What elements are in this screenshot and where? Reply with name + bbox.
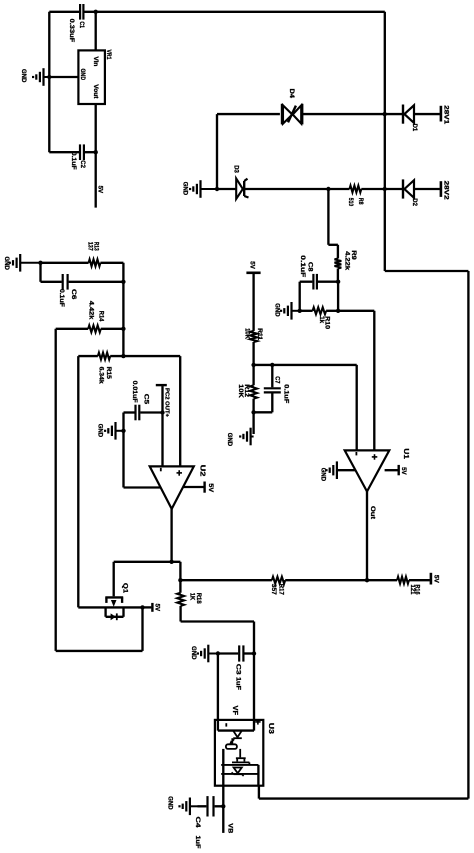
U2 minus sign: [160, 468, 162, 471]
wire R15 row: [78, 355, 98, 357]
svg-text:GND: GND: [226, 433, 232, 447]
ground U1: [336, 469, 338, 471]
svg-text:R17: R17: [277, 584, 284, 596]
capacitor C2: [79, 144, 81, 160]
resistor R13: [89, 259, 101, 266]
ground D3: [201, 188, 218, 190]
wire U2 out: [170, 509, 172, 562]
wire U2 5V pin: [183, 486, 204, 488]
svg-text:D4: D4: [288, 89, 295, 99]
terminal 5V U2: [203, 482, 205, 493]
op-amp U1: [345, 450, 390, 491]
wire C8-gnd: [299, 282, 301, 311]
node C6 join: [121, 280, 125, 284]
svg-text:Out: Out: [369, 506, 376, 519]
U3 plus sign: [257, 719, 259, 724]
wire U1 out: [366, 492, 368, 581]
svg-text:1uF: 1uF: [235, 677, 242, 690]
ground C8: [292, 310, 300, 312]
svg-text:GND: GND: [319, 468, 325, 482]
regulator VR1: [78, 50, 105, 104]
diode D2: [385, 188, 403, 190]
wire U1 gnd pin: [337, 469, 356, 471]
svg-text:VF: VF: [231, 706, 238, 716]
node gnd junction: [47, 75, 51, 79]
node C4 join: [221, 804, 225, 808]
wire C6 drop: [39, 263, 41, 282]
terminal 28V1: [440, 106, 443, 122]
svg-text:C7: C7: [274, 376, 281, 384]
wire R14 row: [56, 328, 88, 330]
svg-text:5V: 5V: [433, 575, 440, 584]
svg-text:GND: GND: [3, 257, 9, 271]
node bus D4: [383, 112, 387, 116]
wire U3 minus pin: [217, 654, 219, 731]
svg-text:0.1uF: 0.1uF: [299, 255, 306, 277]
node bus D2: [383, 187, 387, 191]
terminal 28V2: [440, 181, 443, 197]
wire C5-gnd: [122, 413, 124, 488]
svg-text:R11: R11: [256, 328, 263, 341]
wire U2out corner: [179, 562, 181, 593]
svg-text:D3: D3: [232, 165, 239, 173]
svg-text:1uF: 1uF: [194, 836, 201, 849]
U3 emitter wire: [221, 764, 258, 766]
resistor R12: [250, 385, 257, 399]
U3 zener: [234, 768, 242, 774]
capacitor C5: [124, 411, 135, 413]
wire gate row: [114, 561, 181, 563]
resistor R11: [250, 331, 257, 342]
wire source loop: [141, 607, 143, 651]
wire D4 row: [217, 113, 280, 115]
node R15 join: [121, 354, 125, 358]
wire left bus: [122, 263, 124, 356]
node C3 right: [252, 651, 256, 655]
wire R13 row: [41, 262, 89, 264]
terminal PC2 OUT+: [161, 386, 163, 412]
diode D1: [385, 113, 403, 115]
U2 plus sign: [178, 470, 180, 476]
terminal 5V R16: [430, 573, 433, 585]
svg-text:Vin: Vin: [92, 56, 98, 66]
node R12/C7: [251, 410, 255, 414]
capacitor C8: [300, 281, 313, 283]
ground R13: [20, 262, 40, 264]
ground C3: [208, 653, 218, 655]
resistor R8: [350, 186, 362, 193]
wire bottom bus: [259, 797, 469, 799]
resistor R17: [272, 577, 285, 584]
wire U1- row: [254, 364, 357, 366]
ground C4: [190, 805, 198, 807]
wire U1 5V pin: [385, 469, 398, 471]
wire top rail (Vin): [49, 11, 79, 13]
resistor R15: [98, 353, 110, 360]
wire right bus: [384, 12, 386, 271]
wire U3 plus pin: [253, 654, 255, 731]
svg-text:Q1: Q1: [122, 583, 129, 594]
svg-text:GND: GND: [190, 646, 196, 660]
svg-text:VR1: VR1: [105, 50, 112, 60]
wire D4-D3 link: [216, 114, 218, 189]
U3 left pin out: [222, 786, 224, 807]
node U1 out join: [365, 578, 369, 582]
node C3 left: [216, 651, 220, 655]
svg-text:D2: D2: [411, 198, 418, 206]
wire VB stub: [222, 806, 224, 833]
svg-text:R8: R8: [357, 198, 364, 205]
svg-text:10K: 10K: [243, 328, 250, 340]
svg-text:Vout: Vout: [92, 84, 98, 98]
wire U2 minus: [161, 413, 163, 467]
svg-text:0.33uF: 0.33uF: [68, 19, 75, 43]
wire U2 Vminus: [124, 486, 162, 488]
wire Vin pin: [95, 12, 97, 51]
op-amp U2: [150, 466, 194, 509]
wire Vout pin: [95, 104, 97, 208]
terminal 5V U1: [398, 465, 400, 475]
wire R9-C8: [337, 269, 339, 282]
tvs diode D4: [281, 104, 283, 125]
wire R12: [252, 365, 254, 385]
node C7 top: [270, 363, 274, 367]
node R13 gnd: [38, 261, 42, 265]
svg-text:C2: C2: [79, 160, 86, 168]
wire R16 row: [367, 579, 397, 581]
node R18 top: [178, 578, 182, 582]
svg-text:28V2: 28V2: [443, 181, 450, 201]
U3 lower wire: [221, 773, 258, 775]
svg-text:5V: 5V: [207, 483, 214, 493]
resistor R14: [88, 325, 101, 332]
svg-text:PC2 OUT+: PC2 OUT+: [163, 388, 169, 418]
wire Q1 5V: [143, 606, 152, 608]
svg-text:4.22k: 4.22k: [343, 251, 350, 271]
U1 plus sign: [374, 454, 376, 460]
capacitor C1: [79, 4, 81, 20]
wire C2 row: [49, 151, 79, 153]
node R11/R12: [251, 363, 255, 367]
capacitor C7: [271, 365, 273, 387]
wire D3-R8 row: [244, 188, 349, 190]
svg-text:6.34k: 6.34k: [97, 367, 104, 385]
node C5 gnd: [121, 429, 125, 433]
svg-text:5V: 5V: [400, 467, 407, 475]
svg-text:121: 121: [409, 585, 416, 596]
wire to U1+: [338, 310, 374, 312]
svg-text:28V1: 28V1: [443, 105, 450, 125]
wire R18 out: [179, 606, 181, 622]
U3 wire left: [222, 749, 224, 786]
svg-text:U1: U1: [402, 448, 409, 459]
svg-text:5V: 5V: [97, 186, 104, 194]
svg-text:R15: R15: [105, 367, 112, 380]
capacitor C6: [41, 281, 62, 283]
optocoupler U3: [215, 720, 263, 786]
U3 transistor: [239, 749, 241, 758]
svg-text:10K: 10K: [237, 384, 244, 398]
svg-text:5V: 5V: [249, 261, 256, 269]
wire feedback A: [55, 329, 57, 651]
wire VR1 gnd pin: [49, 76, 78, 78]
node R10 out: [336, 309, 340, 313]
node C8 junction: [336, 280, 340, 284]
svg-text:0.01uF: 0.01uF: [131, 381, 138, 403]
svg-text:0.1uF: 0.1uF: [58, 289, 65, 307]
node U2 out: [169, 560, 173, 564]
svg-text:R14: R14: [97, 311, 104, 322]
wire bus jog right: [385, 270, 469, 272]
wire C8-R10 link: [337, 282, 339, 311]
svg-text:GND: GND: [167, 796, 173, 810]
svg-text:1k: 1k: [318, 316, 325, 324]
svg-text:510: 510: [347, 198, 354, 207]
svg-text:D1: D1: [411, 124, 418, 132]
wire R17 row: [180, 579, 272, 581]
node Q1 source: [140, 605, 144, 609]
U3 minus sign: [225, 723, 227, 726]
U3 right pin: [257, 765, 259, 786]
svg-text:C4: C4: [194, 817, 201, 829]
svg-text:C8: C8: [307, 262, 314, 272]
U3 led: [218, 729, 254, 731]
svg-text:357: 357: [270, 584, 277, 596]
node D3 junction: [215, 187, 219, 191]
resistor R9: [335, 259, 342, 269]
svg-text:4.42k: 4.42k: [88, 301, 95, 320]
terminal 5V R11: [246, 271, 260, 274]
U3 base resistor: [231, 738, 233, 744]
svg-text:1K: 1K: [189, 593, 196, 601]
wire U2 plus: [179, 356, 181, 466]
svg-text:0.1uF: 0.1uF: [283, 384, 290, 403]
transistor Q1: [105, 596, 123, 598]
svg-text:GND: GND: [79, 69, 85, 81]
U1 minus sign: [355, 452, 357, 455]
wire R9 jog: [327, 189, 329, 245]
resistor R16: [397, 577, 409, 584]
resistor R10: [300, 310, 313, 312]
capacitor C4: [198, 805, 207, 807]
resistor R18: [177, 593, 184, 606]
svg-text:C6: C6: [70, 289, 77, 300]
wire R12 out: [252, 399, 254, 434]
wire far right bus: [467, 271, 469, 799]
wire feedback B: [77, 356, 79, 607]
svg-text:U2: U2: [198, 465, 205, 477]
svg-text:137: 137: [87, 242, 94, 251]
ground U2: [116, 430, 124, 432]
zener diode D3: [217, 188, 236, 190]
wire R11 out: [252, 342, 254, 365]
svg-text:GND: GND: [182, 182, 188, 196]
node R14 join: [121, 327, 125, 331]
wire gate drop: [113, 562, 115, 597]
node Vin tap: [94, 10, 98, 14]
wire 5V-R11: [252, 273, 254, 331]
svg-text:C3: C3: [235, 664, 242, 676]
svg-text:5V: 5V: [153, 604, 160, 612]
node R10 gnd junction: [298, 309, 302, 313]
svg-text:GND: GND: [20, 69, 26, 83]
node R9 tap: [326, 187, 330, 191]
svg-text:GND: GND: [96, 424, 102, 438]
svg-text:GND: GND: [273, 303, 279, 317]
wire left rail gnd: [48, 12, 50, 152]
ground VR1: [44, 76, 50, 78]
node Vout: [94, 150, 98, 154]
node PC2 junction: [160, 410, 164, 414]
svg-text:C1: C1: [78, 21, 85, 28]
svg-text:VB: VB: [226, 823, 233, 834]
svg-text:U3: U3: [267, 723, 274, 734]
svg-text:0.1uF: 0.1uF: [70, 152, 77, 170]
svg-text:C5: C5: [142, 394, 149, 405]
capacitor C3: [218, 652, 238, 654]
ground R12: [251, 436, 254, 438]
terminal 5V Q1: [151, 603, 153, 612]
